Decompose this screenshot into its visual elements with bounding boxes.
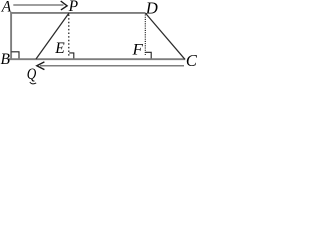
line AD top rail: [10, 12, 145, 14]
svg-text:F: F: [131, 41, 143, 58]
segment DC: [145, 13, 185, 59]
right angle mark at E: [69, 53, 74, 59]
svg-text:E: E: [54, 40, 65, 57]
svg-text:B: B: [1, 51, 11, 68]
arrow A to P (head): [61, 1, 67, 10]
right angle mark at F: [146, 52, 151, 58]
dotted perpendicular PE: [68, 15, 70, 56]
arrow A to P (shaft): [13, 4, 63, 6]
dotted perpendicular DF: [144, 15, 146, 56]
bottom arrow line Q (head): [37, 62, 45, 70]
bottom arrow line Q (shaft): [40, 65, 184, 67]
segment PQ: [36, 13, 69, 59]
svg-text:A: A: [1, 0, 12, 16]
svg-text:Q: Q: [27, 66, 37, 83]
left side segment from top rail to B: [10, 12, 12, 60]
Q tail swash: [30, 82, 36, 84]
line BC bottom rail: [9, 58, 186, 60]
svg-text:C: C: [186, 51, 198, 70]
right angle mark at B: [11, 52, 19, 59]
